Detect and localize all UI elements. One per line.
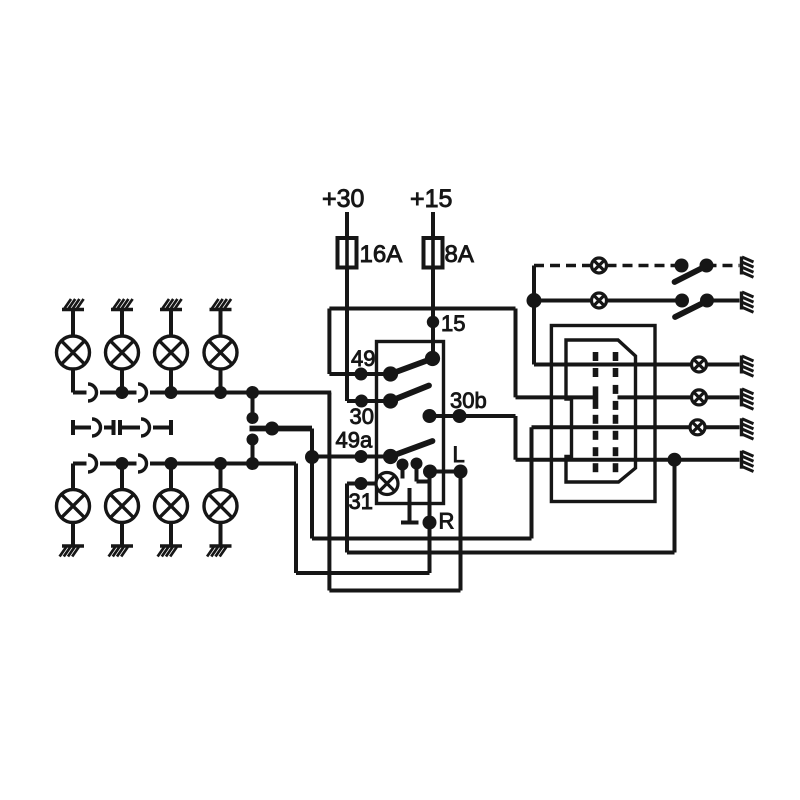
svg-text:30: 30: [350, 404, 374, 429]
svg-text:30b: 30b: [450, 388, 487, 413]
svg-text:R: R: [439, 509, 455, 534]
svg-text:L: L: [453, 442, 465, 467]
svg-text:+30: +30: [322, 185, 364, 213]
svg-text:49: 49: [351, 346, 375, 371]
svg-text:31: 31: [349, 489, 373, 514]
svg-text:16A: 16A: [360, 241, 403, 268]
svg-text:15: 15: [441, 311, 465, 336]
svg-text:49a: 49a: [336, 428, 373, 453]
svg-text:8A: 8A: [445, 241, 474, 268]
svg-text:+15: +15: [410, 185, 452, 213]
